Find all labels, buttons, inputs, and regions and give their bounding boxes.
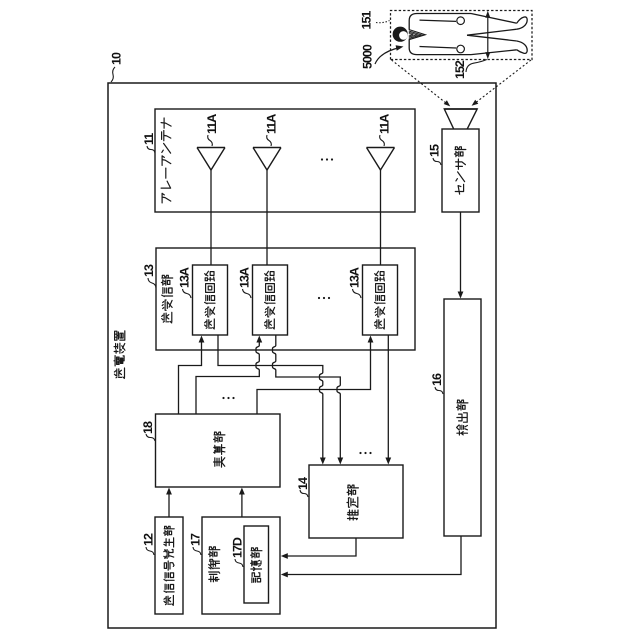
- box 13A #1: transceiver circuit 送受信回路: [193, 265, 228, 335]
- label 11A #1: [205, 114, 219, 134]
- wire: sensor 15 to detector 16: [458, 212, 464, 299]
- box 13A #2: transceiver circuit 送受信回路: [253, 265, 288, 335]
- label 17D wiggle: [235, 559, 243, 567]
- box 18: multiplier 乗算部: [156, 414, 281, 487]
- label 17D: [231, 537, 245, 558]
- sensor antenna horn: [444, 109, 477, 129]
- label 11: [142, 133, 156, 145]
- box 12: transmission signal generator 送信信号発生部: [155, 517, 183, 614]
- label 12: [142, 533, 156, 546]
- label 151: [359, 11, 373, 30]
- wire: transceiver3 output to estimator: [385, 335, 391, 465]
- label 152 wiggle leader: [466, 60, 487, 73]
- wire: estimator 14 to controller 17: [281, 538, 356, 559]
- label 16: [430, 373, 444, 386]
- text 送受信回路 #2: [265, 271, 275, 329]
- label 15 wiggle: [433, 158, 441, 165]
- label 11A #3 wiggle: [380, 135, 385, 146]
- text 乗算部: [214, 432, 225, 467]
- svg-text:151: 151: [359, 11, 373, 30]
- label 11 leader wiggle: [147, 146, 155, 153]
- svg-text:13A: 13A: [178, 267, 192, 288]
- label 12 wiggle: [146, 547, 154, 555]
- text センサ部: [455, 147, 466, 194]
- label 13A #2 wiggle: [243, 289, 252, 298]
- wire: transceiver2 output to estimator (with hops): [273, 335, 344, 465]
- label 11A #3: [378, 114, 392, 134]
- box 13A #3: transceiver circuit 送受信回路: [363, 265, 398, 335]
- svg-text:14: 14: [296, 477, 310, 490]
- wire: signal generator 12 to multiplier 18: [166, 488, 172, 518]
- wire: multiplier out2 to transceiver2 input (hops over wire and box edge): [196, 336, 262, 415]
- svg-text:15: 15: [428, 144, 442, 157]
- text 推定部: [347, 485, 358, 520]
- box 17: controller 制御部: [202, 517, 280, 614]
- person collar: [409, 30, 426, 40]
- label 11A #1 wiggle: [208, 135, 213, 146]
- svg-text:18: 18: [141, 421, 155, 434]
- svg-text:5000: 5000: [361, 44, 375, 69]
- wire: multiplier out1 to transceiver1 input: [179, 336, 205, 415]
- outer box: power transmission device 送電装置 (10): [108, 83, 496, 628]
- title text 送電装置: [114, 331, 125, 379]
- wire: transceiver1 output to estimator (hops over two wires): [218, 335, 326, 465]
- leader arrow 5000 to person: [375, 45, 404, 64]
- svg-text:11: 11: [142, 133, 156, 145]
- person body outline (torso arms legs): [409, 14, 527, 55]
- label 16 wiggle: [435, 387, 443, 394]
- person head (filled): [393, 27, 408, 42]
- wire antenna3 to transceiver3: [380, 170, 382, 265]
- dotted beam from person box to sensor horn (upper): [392, 60, 451, 106]
- svg-text:152: 152: [453, 60, 467, 79]
- svg-text:13: 13: [142, 264, 156, 277]
- label 13: [142, 264, 156, 277]
- antenna element 11A #1: [197, 148, 225, 171]
- text 送受信回路 #1: [205, 271, 215, 329]
- label 11A #2 wiggle: [267, 135, 272, 146]
- label 11A #2: [265, 114, 279, 134]
- ellipsis multiplier outputs: [222, 397, 234, 399]
- label 13A #3: [348, 267, 362, 288]
- wire antenna2 to transceiver2: [266, 170, 268, 265]
- dashed box around person (151): [391, 11, 533, 60]
- text 検出部: [457, 400, 468, 435]
- ellipsis estimator inputs: [359, 452, 371, 454]
- label 152: [453, 60, 467, 79]
- svg-text:11A: 11A: [265, 114, 279, 134]
- wire: multiplier out3 to transceiver3 input: [257, 336, 373, 415]
- label 17 wiggle: [193, 547, 201, 555]
- label 13A #1 wiggle: [183, 289, 192, 298]
- wire: detector 16 to controller 17: [281, 536, 461, 577]
- label 15: [428, 144, 442, 157]
- dotted beam from person box to sensor horn (lower): [472, 60, 531, 106]
- label 13 wiggle: [148, 278, 156, 288]
- label 18: [141, 421, 155, 434]
- svg-text:10: 10: [110, 52, 124, 65]
- label 13A #1: [178, 267, 192, 288]
- svg-text:11A: 11A: [205, 114, 219, 134]
- wire: controller 17 to multiplier 18: [239, 488, 245, 518]
- ellipsis between antennas 2 and 3: [321, 158, 333, 160]
- label 14 wiggle: [300, 490, 308, 497]
- label 13A #2: [238, 267, 252, 288]
- box 14: estimator 推定部: [309, 465, 403, 538]
- ellipsis between transceiver circuits 2 and 3: [318, 297, 330, 299]
- box 13: transceiver unit 送受信部: [156, 248, 415, 350]
- antenna element 11A #2: [253, 148, 281, 171]
- text 送信信号発生部: [164, 526, 175, 605]
- wire antenna1 to transceiver1: [210, 170, 212, 265]
- label 17: [189, 533, 203, 546]
- label 151 dotted leader: [376, 21, 390, 23]
- text 送受信部: [161, 275, 172, 323]
- box 15: sensor unit センサ部: [442, 129, 479, 212]
- box 16: detector 検出部: [444, 299, 481, 536]
- text 記憶部: [251, 548, 262, 583]
- label 18 wiggle: [146, 434, 155, 441]
- svg-text:17: 17: [189, 533, 203, 546]
- svg-text:11A: 11A: [378, 114, 392, 134]
- svg-text:12: 12: [142, 533, 156, 546]
- box 11: array antenna アレーアンテナ: [155, 109, 415, 212]
- svg-text:16: 16: [430, 373, 444, 386]
- label 14: [296, 477, 310, 490]
- label 10 leader wiggle: [111, 67, 115, 82]
- svg-text:17D: 17D: [231, 537, 245, 558]
- text アレーアンテナ: [161, 118, 171, 203]
- label 5000: [361, 44, 375, 69]
- text 制御部: [209, 547, 220, 582]
- box 17D: storage 記憶部: [244, 526, 269, 603]
- width dimension arrow 152 (double-headed): [485, 11, 490, 59]
- text 送受信回路 #3: [375, 271, 385, 329]
- antenna element 11A #3: [367, 148, 395, 171]
- label 13A #3 wiggle: [353, 289, 362, 298]
- label 10: [110, 52, 124, 65]
- svg-text:13A: 13A: [348, 267, 362, 288]
- svg-text:13A: 13A: [238, 267, 252, 288]
